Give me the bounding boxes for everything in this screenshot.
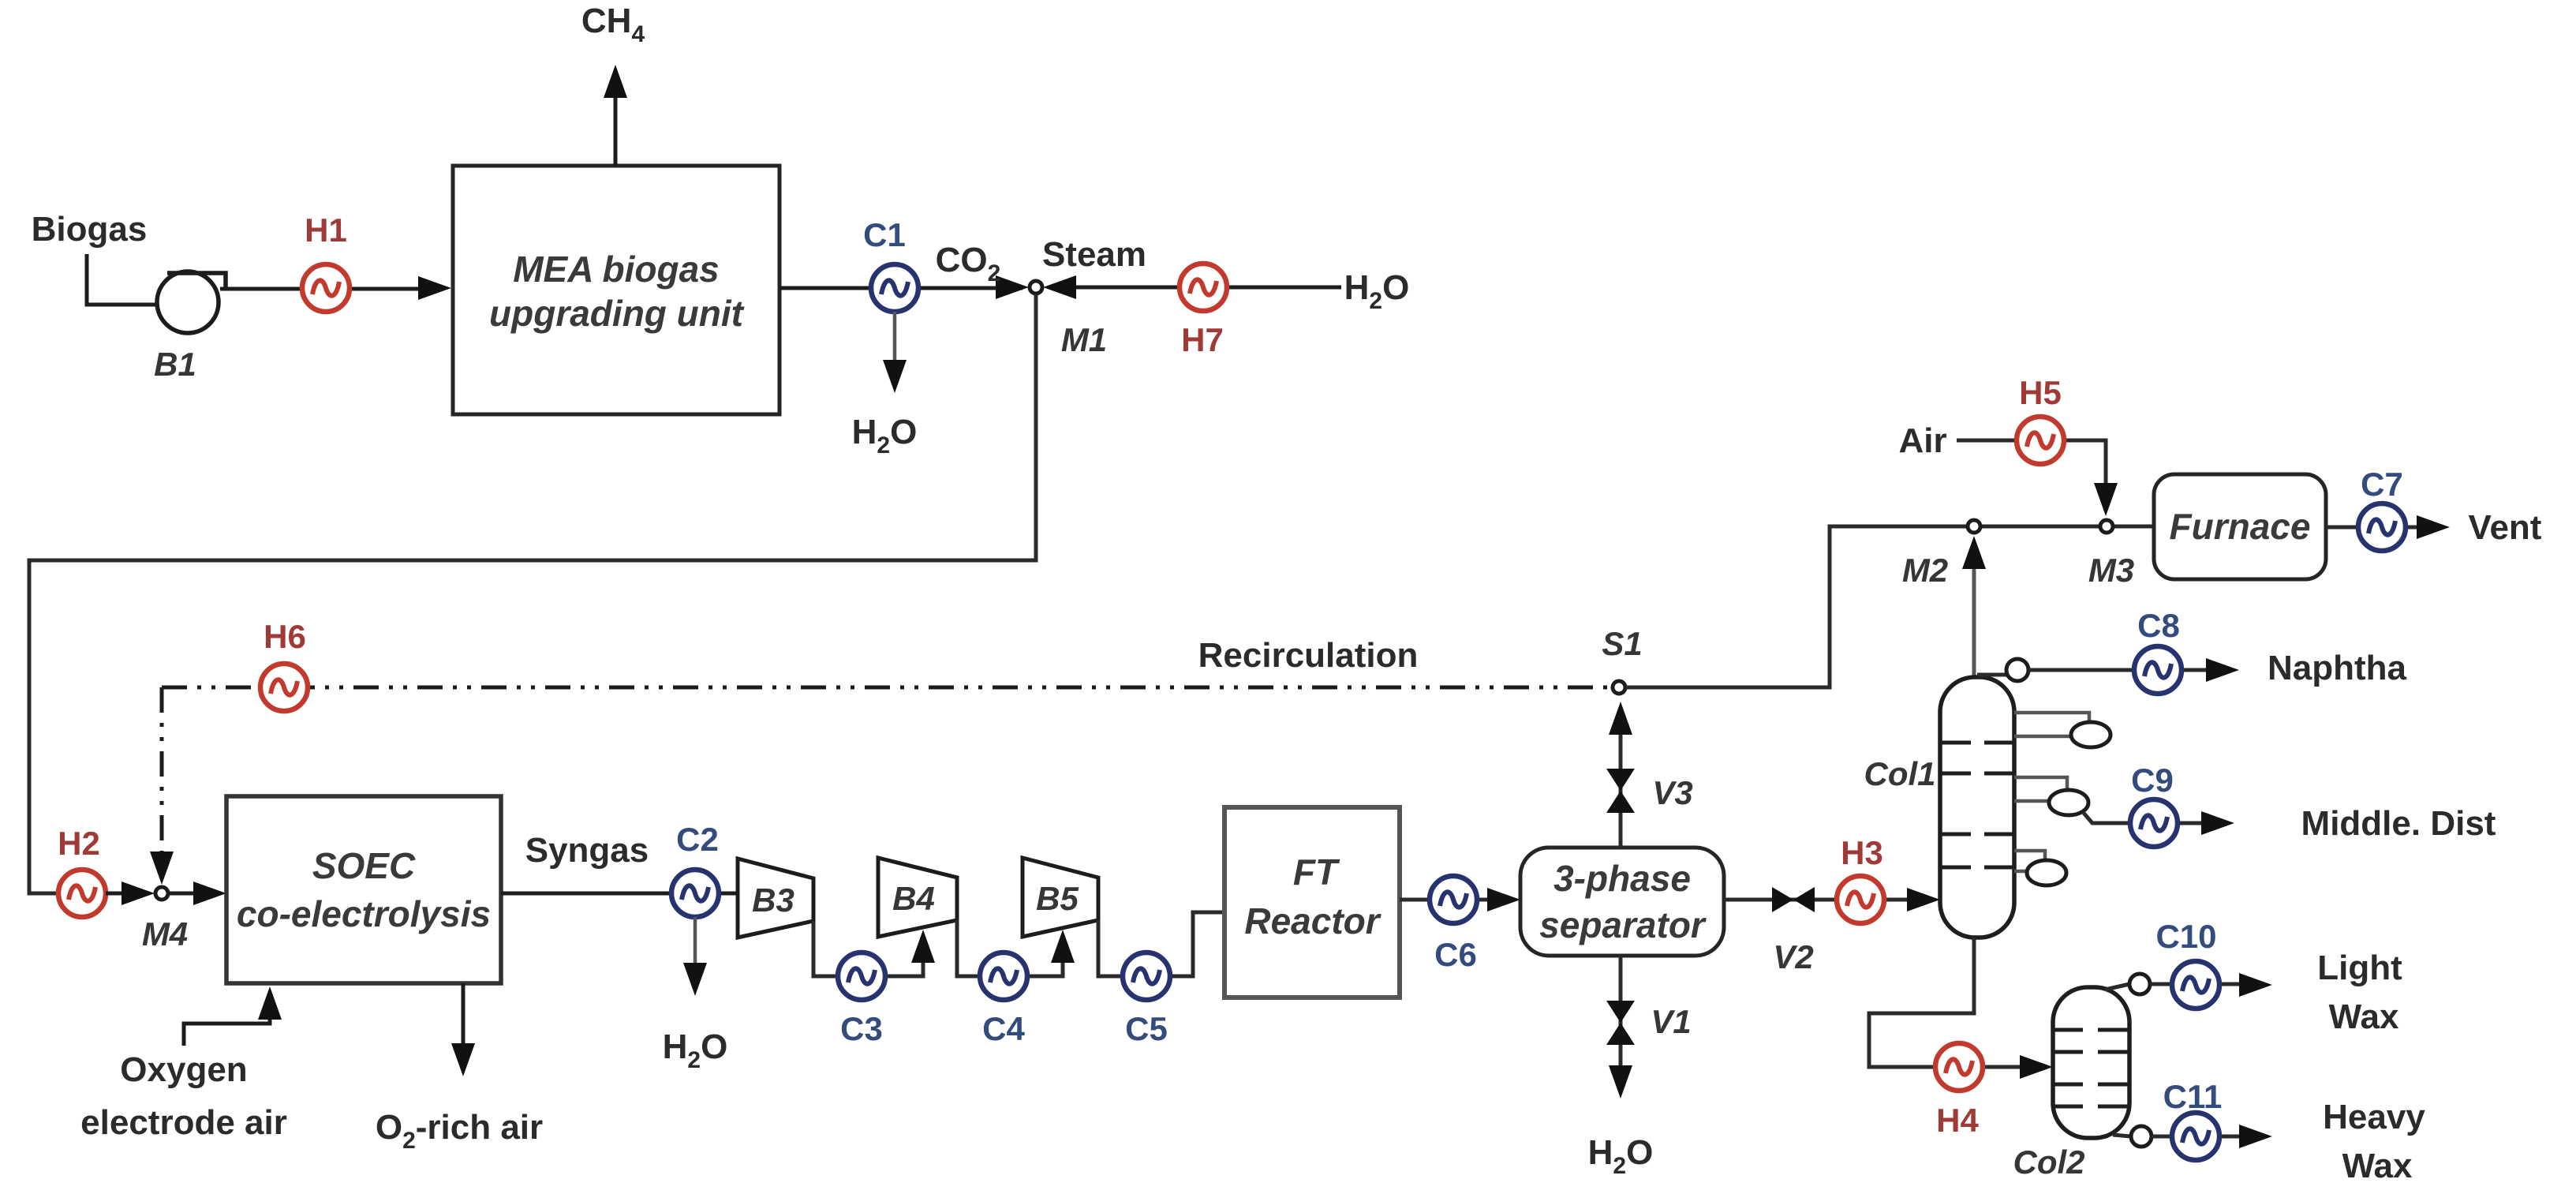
wire Col2 overhead to C10 Light Wax xyxy=(2150,983,2242,986)
svg-text:C5: C5 xyxy=(1125,1010,1168,1047)
wire M4 to SOEC xyxy=(169,892,197,896)
Col1 pumparound draw 1 xyxy=(2014,713,2089,722)
cooler C8 xyxy=(2134,646,2182,694)
svg-text:Oxygen: Oxygen xyxy=(120,1050,247,1089)
svg-text:Biogas: Biogas xyxy=(32,210,148,249)
cooler C5 xyxy=(1123,953,1170,1000)
wire C2 water outlet xyxy=(694,917,697,968)
compressor B5 xyxy=(1023,858,1098,937)
svg-text:M2: M2 xyxy=(1902,552,1948,589)
wire C1 water outlet xyxy=(893,312,897,365)
svg-text:H5: H5 xyxy=(2019,374,2062,411)
heater H1 xyxy=(302,264,350,312)
wire Syngas line SOEC to B3 xyxy=(501,892,738,896)
svg-text:SOEC: SOEC xyxy=(312,845,416,886)
wire M1 down, across and to H2/M4 xyxy=(29,294,1036,893)
Furnace xyxy=(2154,474,2326,579)
svg-text:C3: C3 xyxy=(840,1010,883,1047)
mixer M1 xyxy=(1030,281,1042,294)
wire Biogas inlet xyxy=(87,254,158,305)
svg-text:B5: B5 xyxy=(1036,880,1079,917)
heater H7 xyxy=(1180,264,1227,311)
MEA biogas upgrading unit xyxy=(453,166,780,414)
svg-text:B3: B3 xyxy=(752,881,794,919)
heater H6 xyxy=(260,664,308,711)
wire O2-rich air outlet xyxy=(462,983,465,1046)
wire Furnace to Vent xyxy=(2326,526,2420,530)
svg-text:upgrading unit: upgrading unit xyxy=(489,293,745,334)
svg-text:Col1: Col1 xyxy=(1864,755,1935,792)
cooler C6 xyxy=(1430,876,1477,923)
svg-text:Reactor: Reactor xyxy=(1244,900,1381,941)
svg-text:C4: C4 xyxy=(982,1010,1025,1047)
svg-text:H3: H3 xyxy=(1841,834,1883,871)
wire separator to V2 H3 Col1 xyxy=(1724,898,1910,902)
svg-text:MEA biogas: MEA biogas xyxy=(513,249,720,290)
Col1 tray lines xyxy=(1942,743,2013,867)
svg-text:B1: B1 xyxy=(154,346,196,383)
svg-text:C8: C8 xyxy=(2137,607,2180,644)
cooler C4 xyxy=(980,953,1027,1000)
svg-text:M4: M4 xyxy=(142,915,188,953)
column Col1 xyxy=(1940,677,2014,938)
svg-text:C1: C1 xyxy=(863,216,906,253)
svg-text:H6: H6 xyxy=(264,618,306,655)
valve V2 xyxy=(1772,887,1815,912)
wire B1 to MEA unit xyxy=(220,287,442,291)
Col2 tray lines xyxy=(2054,1030,2128,1106)
heater H4 xyxy=(1935,1043,1983,1091)
svg-text:Heavy: Heavy xyxy=(2323,1098,2425,1136)
heater H3 xyxy=(1837,876,1884,923)
svg-text:M3: M3 xyxy=(2088,552,2134,589)
wire MEA to M1 xyxy=(780,286,1023,290)
svg-text:V1: V1 xyxy=(1651,1003,1691,1040)
compressor B3 xyxy=(738,859,813,938)
svg-text:C6: C6 xyxy=(1434,936,1477,973)
svg-text:H1: H1 xyxy=(305,211,347,249)
valve V1 xyxy=(1606,1001,1635,1045)
wire recirculation dash-dot horizontal xyxy=(162,686,1611,690)
svg-text:Syngas: Syngas xyxy=(525,831,649,870)
svg-text:Wax: Wax xyxy=(2342,1147,2413,1185)
svg-text:co-electrolysis: co-electrolysis xyxy=(237,893,491,934)
svg-text:Steam: Steam xyxy=(1042,235,1146,274)
wire S1 to M2 M3 furnace xyxy=(1626,526,2154,687)
svg-text:C7: C7 xyxy=(2361,466,2403,503)
wire condenser to C8 Naphtha xyxy=(2028,668,2209,672)
cooler C10 xyxy=(2172,961,2219,1009)
svg-text:V3: V3 xyxy=(1652,774,1692,811)
wire Col2 bottoms to C11 Heavy Wax xyxy=(2152,1135,2242,1139)
svg-text:Middle. Dist: Middle. Dist xyxy=(2301,804,2496,843)
wire separator to V3 to S1 xyxy=(1619,712,1623,848)
wire B3 outlet to C3 to B4 xyxy=(813,921,923,976)
svg-text:Light: Light xyxy=(2317,949,2402,987)
wire B4 outlet to C4 to B5 xyxy=(957,920,1063,976)
splitter S1 xyxy=(1613,681,1625,694)
svg-text:Naphtha: Naphtha xyxy=(2268,649,2407,687)
Col1 side draw 2 to C9 xyxy=(2014,777,2067,788)
FT Reactor xyxy=(1224,807,1400,997)
svg-text:Air: Air xyxy=(1898,421,1946,460)
svg-text:C2: C2 xyxy=(676,821,719,858)
valve V3 xyxy=(1606,769,1635,813)
wire CH4 outlet xyxy=(614,93,618,166)
svg-text:C11: C11 xyxy=(2163,1078,2223,1115)
cooler C7 xyxy=(2358,503,2406,551)
wire recirculation dash-dot down into M4 xyxy=(160,687,164,856)
SOEC co-electrolysis unit xyxy=(226,796,501,983)
wire H2 to M4 xyxy=(106,892,126,896)
svg-text:FT: FT xyxy=(1293,852,1340,893)
Col2 bottoms stub xyxy=(2113,1135,2131,1136)
svg-text:H4: H4 xyxy=(1936,1102,1979,1139)
wire FT to separator xyxy=(1400,898,1493,902)
svg-text:3-phase: 3-phase xyxy=(1553,858,1691,899)
mixer M2 xyxy=(1968,520,1980,533)
compressor B4 xyxy=(878,858,957,937)
heater H5 xyxy=(2017,417,2064,464)
svg-text:V2: V2 xyxy=(1773,938,1813,975)
mixer M3 xyxy=(2100,520,2113,533)
wire Col1 overhead to M2 xyxy=(1972,546,1976,677)
wire separator to V1 water xyxy=(1619,956,1623,1070)
wire H2O feed to M1 xyxy=(1054,286,1341,290)
Col1 condenser stub xyxy=(1977,673,2006,677)
wire Air to H5 to M3 xyxy=(1957,440,2106,485)
svg-text:H2: H2 xyxy=(58,825,100,862)
cooler C3 xyxy=(838,953,885,1000)
svg-text:Wax: Wax xyxy=(2329,997,2399,1036)
svg-text:Col2: Col2 xyxy=(2013,1143,2084,1181)
column Col2 xyxy=(2053,987,2129,1138)
svg-text:C9: C9 xyxy=(2131,762,2174,799)
svg-text:B4: B4 xyxy=(892,880,935,917)
mixer M4 xyxy=(155,887,168,900)
svg-text:Recirculation: Recirculation xyxy=(1198,636,1419,675)
svg-text:electrode air: electrode air xyxy=(80,1103,287,1142)
svg-text:Vent: Vent xyxy=(2469,508,2542,547)
cooler C11 xyxy=(2172,1113,2219,1160)
svg-text:C10: C10 xyxy=(2155,918,2216,955)
3-phase separator xyxy=(1520,848,1724,956)
svg-text:S1: S1 xyxy=(1602,625,1642,662)
blower B1 xyxy=(157,271,219,333)
Col2 overhead stub xyxy=(2105,984,2129,990)
svg-text:H7: H7 xyxy=(1181,321,1224,358)
wire oxygen electrode air inlet xyxy=(184,996,270,1046)
svg-text:Furnace: Furnace xyxy=(2170,506,2311,547)
cooler C9 xyxy=(2130,799,2178,847)
cooler C2 xyxy=(671,870,719,917)
Col1 pumparound draw 3 xyxy=(2014,851,2045,859)
svg-text:M1: M1 xyxy=(1061,321,1107,358)
cooler C1 xyxy=(871,264,918,312)
heater H2 xyxy=(58,870,106,917)
svg-text:separator: separator xyxy=(1539,904,1707,945)
wire B5 outlet to C5 to FT reactor xyxy=(1098,912,1224,976)
wire Col1 bottoms to H4 to Col2 xyxy=(1869,938,2023,1067)
